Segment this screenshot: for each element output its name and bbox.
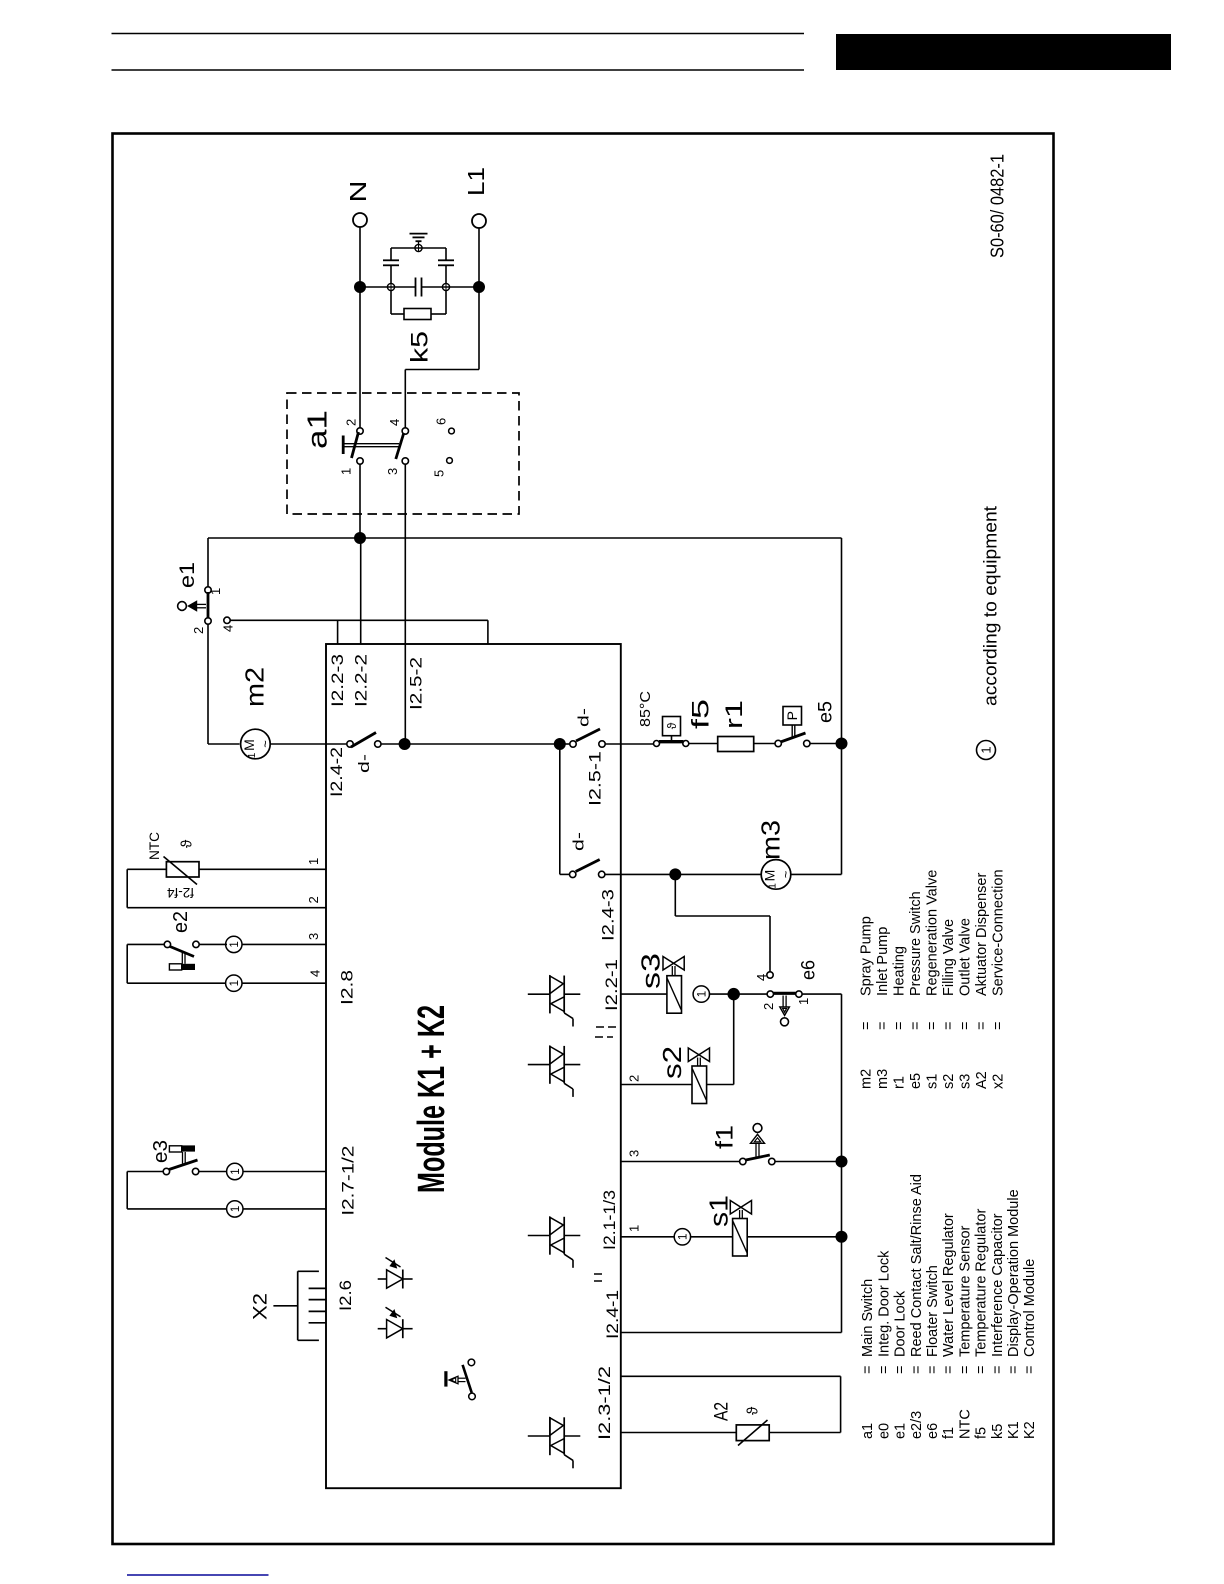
terminal node k5 left [387,283,394,290]
wire N terminal to a1 pin2 [359,227,361,431]
triac 1 [528,993,550,995]
svg-text:=: = [891,1022,907,1030]
svg-text:e5: e5 [908,1073,924,1089]
temperature sensor NTC [166,862,199,877]
svg-text:4: 4 [387,419,402,426]
s3 marker circle 1 [693,986,709,1002]
e3 contact pin a [163,1168,169,1174]
svg-text:x2: x2 [990,1074,1006,1089]
terminal node k5 right [442,283,449,290]
wire bus horizontal [208,537,842,539]
wire s1 from module [621,1236,675,1238]
connector X2 comb [297,1271,299,1340]
svg-text:f2-f4: f2-f4 [167,885,195,900]
top rule 2 [112,69,805,71]
header redaction bar [836,34,1171,70]
svg-text:=: = [860,1366,876,1374]
node N-line / bus junction [354,532,366,544]
capacitor k5 left plates [383,264,399,266]
wire e3 bottom to module [243,1208,326,1210]
e5 P box [783,707,802,726]
wire return line [621,1332,842,1334]
s2 valve bowtie [688,1048,699,1062]
e1 pin 4 [224,617,230,623]
svg-text:Interference Capacitor: Interference Capacitor [990,1213,1006,1357]
switch I2.4-2 blade [351,733,376,748]
wire f1 from module [621,1161,740,1163]
svg-text:according to equipment: according to equipment [981,506,1001,706]
wire s2 to junction [707,1084,734,1086]
svg-text:ϑ: ϑ [665,722,679,729]
svg-text:1: 1 [229,941,241,947]
f5 sensor box [663,717,681,736]
f1 contact pin b [769,1158,775,1164]
wire s1 marker to coil [690,1236,733,1238]
svg-text:Control Module: Control Module [1022,1259,1038,1357]
LED 2 [378,1328,387,1330]
f5 sensor stem [671,736,673,740]
wire L1 terminal down [478,228,480,287]
svg-text:1: 1 [230,1206,242,1212]
svg-text:6: 6 [434,418,449,425]
svg-text:1: 1 [339,468,354,475]
capacitor k5 series plates [415,278,417,297]
drawing frame [113,134,1054,1545]
f5 thermal bar [659,740,684,743]
svg-text:e5: e5 [816,701,837,723]
svg-text:1: 1 [796,998,811,1005]
node s1 junction [836,1231,848,1243]
svg-text:ϑ: ϑ [744,1406,761,1415]
wire e3 top right [199,1171,227,1173]
wire f5 to r1 [689,743,718,745]
svg-text:Floater Switch: Floater Switch [925,1265,941,1357]
f1 contact pin a [740,1158,746,1164]
svg-text:=: = [974,1366,990,1374]
svg-text:3: 3 [306,933,321,940]
f5 contact pin b [683,741,689,747]
terminal L1 [472,214,486,228]
e2 blade [170,947,194,957]
wire bus right vertical [841,538,843,744]
svg-text:m2: m2 [239,667,269,707]
wire s2 from module [621,1084,692,1086]
a1 linkage [344,443,400,445]
svg-text:I2.2-1: I2.2-1 [602,959,621,1011]
node e5 bus junction [836,738,848,750]
wire A2 top [621,1375,841,1377]
svg-text:Inlet Pump: Inlet Pump [875,927,891,996]
s1 valve bowtie [730,1201,741,1215]
svg-text:1: 1 [678,1234,690,1240]
svg-text:A2: A2 [712,1402,733,1421]
wire N-line into module [360,538,362,644]
footer blue underline [127,1574,269,1576]
wire s3 to junction [709,993,730,995]
svg-text:2: 2 [191,627,206,634]
s3 valve bowtie [663,957,674,971]
svg-text:2: 2 [344,419,359,426]
svg-text:I2.5-2: I2.5-2 [406,657,425,710]
svg-text:=: = [858,1022,874,1030]
triac 4 [528,1435,550,1437]
svg-text:1: 1 [627,1225,642,1232]
pressure switch e5 pin a [775,740,781,746]
top rule 1 [112,33,805,35]
svg-text:s3: s3 [635,953,665,989]
svg-text:=: = [925,1366,941,1374]
svg-text:Service-Connection: Service-Connection [990,869,1006,996]
separator dashes 2 [594,1273,602,1275]
svg-text:Temperature Regulator: Temperature Regulator [974,1209,990,1357]
switch I2.4-3 pin b [599,871,605,877]
svg-text:S0-60/ 0482-1: S0-60/ 0482-1 [988,154,1008,258]
svg-text:Outlet Valve: Outlet Valve [957,918,973,996]
e1 pin 1 [205,587,211,593]
pressure switch e5 pin b [804,740,810,746]
svg-text:I2.1-1/3: I2.1-1/3 [600,1190,619,1250]
wire e6 branch [674,874,676,916]
wire junction to e6 [733,993,767,995]
a1 contact blade 3-4 [396,433,404,459]
e3 contact pin b [192,1168,198,1174]
wire k5 bottom right [431,313,446,315]
svg-text:=: = [909,1366,925,1374]
door switch [444,1371,447,1386]
svg-text:e0: e0 [876,1423,892,1439]
svg-text:Regeneration Valve: Regeneration Valve [924,870,940,996]
svg-text:f5: f5 [974,1427,990,1439]
svg-text:2: 2 [627,1075,642,1082]
e2 contact pin a [164,941,170,947]
s3 stem [671,966,673,976]
svg-text:N: N [345,181,371,203]
a1 contact blade 1-2 [352,432,359,458]
node L1-line / main bus [399,738,411,750]
e2 contact pin b [193,941,199,947]
wire e2 pin3 right [199,943,227,945]
svg-text:I2.7-1/2: I2.7-1/2 [339,1146,358,1216]
svg-text:I2.6: I2.6 [336,1280,355,1311]
svg-text:=: = [908,1022,924,1030]
svg-text:4: 4 [221,625,236,632]
svg-text:Main Switch: Main Switch [860,1279,876,1357]
switch I2.5-1 blade [576,729,600,741]
svg-text:5: 5 [432,470,447,477]
svg-text:=: = [1022,1366,1038,1374]
svg-text:2: 2 [761,1003,776,1010]
wire e2 pin3 left [127,943,164,945]
svg-text:=: = [941,1366,957,1374]
ground [418,242,420,245]
svg-text:1: 1 [208,588,223,595]
svg-text:I2.4-2: I2.4-2 [327,747,346,797]
svg-text:e2/3: e2/3 [909,1411,925,1439]
wire k5 left branch top [390,248,392,260]
svg-text:a1: a1 [860,1423,876,1439]
wire m3 tap down [559,744,561,874]
separator dashes [596,1026,604,1028]
e5 stem [791,725,793,737]
svg-text:k5: k5 [407,331,434,363]
svg-text:s2: s2 [657,1046,687,1079]
resistor k5 bridge [404,309,431,320]
svg-text:NTC: NTC [957,1409,973,1439]
svg-text:A2: A2 [974,1071,990,1089]
svg-text:=: = [957,1022,973,1030]
wire k5 top bracket [391,247,446,249]
svg-text:X2: X2 [251,1293,272,1320]
svg-text:1: 1 [768,883,779,889]
e3 actuator [182,1152,184,1164]
svg-text:K2: K2 [1022,1421,1038,1439]
svg-text:1: 1 [979,746,994,753]
svg-text:Heating: Heating [891,946,907,996]
svg-text:Integ. Door Lock: Integ. Door Lock [876,1250,892,1357]
motor m3 [761,860,791,890]
svg-text:e1: e1 [176,562,199,588]
wire module edge to e6 tap [605,873,675,875]
svg-text:=: = [941,1022,957,1030]
wire e1 pin2 down to m2 corner [207,624,209,744]
capacitor k5 right plates [438,264,454,266]
svg-text:e6: e6 [925,1423,941,1439]
node L1 on k5 bus [473,281,485,293]
node e6 branch tap [669,868,681,880]
svg-text:f1: f1 [941,1427,957,1439]
terminal N [353,213,367,227]
wire m2 to module [270,743,326,745]
wire e2 pin4 to module [242,982,326,984]
svg-text:e3: e3 [150,1140,172,1163]
control module K1+K2 box [326,644,621,1488]
wire k5 bus right [422,286,479,288]
svg-text:m3: m3 [755,820,785,860]
svg-text:k5: k5 [990,1424,1006,1439]
svg-text:Temperature Sensor: Temperature Sensor [957,1225,973,1357]
svg-text:Water Level Regulator: Water Level Regulator [941,1213,957,1357]
triac 3 [528,1235,550,1237]
svg-text:s3: s3 [957,1074,973,1089]
wire f1 to right vertical [775,1161,842,1163]
wire k5 right branch top [445,248,447,260]
svg-text:1: 1 [229,980,241,986]
svg-text:m2: m2 [858,1069,874,1089]
svg-text:Module K1 + K2: Module K1 + K2 [411,1005,453,1193]
node f1 junction [836,1156,848,1168]
wire bus switch to L1 node [381,743,405,745]
switch I2.4-3 pin a [570,871,576,877]
wire s1 to right vertical [747,1236,841,1238]
e1 actuator [197,603,206,605]
svg-text:=: = [875,1022,891,1030]
a1 pin 2 [357,428,363,434]
s1 stem [739,1210,741,1219]
e3 marker circle 1 top [227,1163,243,1179]
svg-text:a1: a1 [302,410,333,449]
svg-text:I2.8: I2.8 [338,970,357,1005]
wire k5 right branch up [445,266,447,284]
svg-text:3: 3 [385,468,400,475]
svg-text:Display-Operation Module: Display-Operation Module [1006,1189,1022,1357]
wire a1 pin1 to bus [359,464,361,538]
wire e3 bottom [127,1208,227,1210]
wire e2 pin4 [127,982,226,984]
svg-text:=: = [876,1366,892,1374]
svg-text:I2.5-1: I2.5-1 [585,751,604,806]
wire L1 jog [478,287,480,370]
wire e1 pin4 to module [230,619,488,621]
a1 contact 5 [447,458,453,464]
wire A2 to module [621,1432,736,1434]
s1 marker circle 1 [674,1229,690,1245]
switch I2.5-1 pin b [599,741,605,747]
e2 marker circle 1 bottom [226,975,242,991]
svg-text:e2: e2 [170,911,192,933]
wire right vertical s1 to return [841,1237,843,1333]
svg-text:s2: s2 [941,1074,957,1089]
node N on k5 bus [354,281,366,293]
svg-text:P: P [784,711,800,720]
svg-text:1: 1 [230,1168,242,1174]
wire k5 left branch up [390,266,392,284]
wire NTC pin2 [127,907,326,909]
wire k5 bottom left [390,291,392,315]
svg-text:s1: s1 [924,1074,940,1089]
svg-text:4: 4 [307,970,322,977]
svg-text:ϑ: ϑ [178,839,195,848]
e1 contact blade [207,592,210,619]
node m3 branch tap [554,738,566,750]
svg-text:e1: e1 [893,1423,909,1439]
s3 coil [667,976,682,1014]
svg-text:L1: L1 [463,167,489,196]
svg-text:Filling Valve: Filling Valve [941,919,957,996]
svg-text:I2.3-1/2: I2.3-1/2 [595,1366,614,1440]
svg-text:=: = [974,1022,990,1030]
svg-text:I2.2-3: I2.2-3 [328,654,347,707]
wire bus to f5 [605,743,656,745]
e3 blade [169,1160,198,1170]
actuator A2 [736,1425,769,1441]
s2 coil [692,1066,707,1104]
svg-text:Aktuator Dispenser: Aktuator Dispenser [974,873,990,996]
e6 contact pin 2 [767,991,773,997]
svg-text:Door Lock: Door Lock [893,1290,909,1357]
svg-text:f1: f1 [712,1125,739,1149]
wire bus m2 to switch [326,743,347,745]
f1 actuator [753,1124,762,1133]
e6 reed bar [774,992,796,995]
motor m2 [241,729,271,759]
e1 pin 2 [205,618,211,624]
wire a1 pin3 down [404,464,406,744]
svg-text:I2.2-2: I2.2-2 [351,654,370,707]
a1 pin 4 [402,428,408,434]
switch I2.4-3 blade [576,860,600,872]
svg-text:Reed Contact Salt/Rinse Aid: Reed Contact Salt/Rinse Aid [909,1174,925,1357]
e5 blade [781,733,806,742]
triac 2 [528,1064,550,1066]
wire k5 bus left [360,286,415,288]
svg-text:m3: m3 [875,1069,891,1089]
heating resistor r1 [718,737,754,752]
f1 blade [746,1155,770,1160]
wire bus to I2.5-1 switch [560,743,570,745]
svg-text:=: = [990,1022,1006,1030]
svg-text:K1: K1 [1006,1421,1022,1439]
e3 marker circle 1 bottom [227,1201,243,1217]
svg-text:e6: e6 [798,960,819,980]
a1 pin 3 [402,458,408,464]
svg-text:NTC: NTC [147,832,162,860]
svg-text:d-: d- [570,832,587,851]
svg-text:Pressure Switch: Pressure Switch [908,891,924,996]
a1 contact 6 [449,428,455,434]
main switch a1 dashed box [287,393,519,514]
wire A2 bottom right [769,1432,840,1434]
wire s3 from module [621,993,667,995]
X2 lead [273,1305,297,1307]
e6 pin 4 [767,972,773,978]
wire e3 left loop [127,1171,163,1173]
e2 actuator [181,953,183,964]
f5 contact pin a [654,741,660,747]
switch I2.4-2 pin a [347,741,353,747]
svg-text:d-: d- [356,754,373,773]
wire NTC left [127,868,166,870]
node s2/s3 junction [728,988,740,1000]
switch I2.4-2 pin b [375,741,381,747]
a1 actuator bar [342,436,345,455]
svg-text:I2.4-3: I2.4-3 [599,889,618,941]
wire r1 to e5 [754,743,775,745]
svg-text:4: 4 [754,974,769,981]
LED 1 [378,1278,387,1280]
wire bus left vertical upper [207,538,209,590]
wire m3 to bus vertical [791,873,842,875]
wire tap to m3 [675,873,761,875]
wire right vertical f1 to s1 [841,1162,843,1237]
switch I2.5-1 pin a [570,741,576,747]
svg-text:1: 1 [696,991,708,997]
wire e2 marker to module [242,943,326,945]
e6 actuator [782,996,784,1007]
terminal node k5 ground tap [415,244,422,251]
svg-text:1: 1 [247,752,258,758]
wire e6 to right vertical [802,993,841,995]
wire e3 marker to module [243,1171,326,1173]
e2 marker circle 1 top [226,936,242,952]
svg-text:1: 1 [306,858,321,865]
svg-text:3: 3 [627,1150,642,1157]
svg-text:r1: r1 [891,1076,907,1089]
svg-text:f5: f5 [688,699,715,729]
svg-text:M: M [241,739,257,751]
svg-text:Spray Pump: Spray Pump [858,916,874,996]
a1 pin 1 [357,458,363,464]
svg-text:=: = [990,1366,1006,1374]
wire right vertical e6 to f1 [841,994,843,1161]
svg-text:M: M [762,870,778,882]
svg-text:=: = [893,1366,909,1374]
wire NTC pin1 [199,868,326,870]
svg-text:I2.4-1: I2.4-1 [603,1290,622,1339]
s1 coil [733,1219,748,1257]
svg-text:=: = [957,1366,973,1374]
svg-text:2: 2 [306,896,321,903]
note marker circle 1 [977,741,996,760]
